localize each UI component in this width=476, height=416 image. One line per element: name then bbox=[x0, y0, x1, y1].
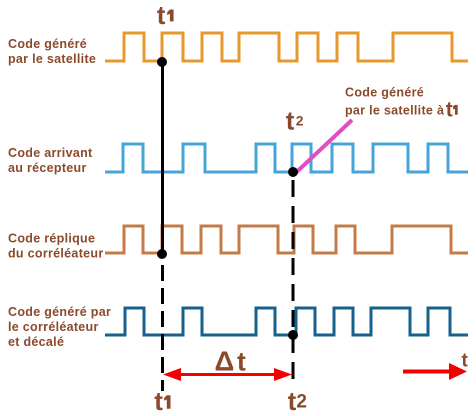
node: dot t1 on W3 bbox=[157, 249, 167, 259]
svg-text:par le satellite à: par le satellite à bbox=[345, 104, 444, 118]
svg-text:le corréléateur: le corréléateur bbox=[8, 320, 99, 334]
svg-text:t: t bbox=[154, 386, 163, 416]
label: t1 top bbox=[157, 0, 174, 30]
svg-text:Code généré: Code généré bbox=[345, 85, 424, 99]
svg-text:au récepteur: au récepteur bbox=[8, 161, 87, 175]
svg-text:Code réplique: Code réplique bbox=[8, 231, 95, 245]
svg-text:t: t bbox=[462, 350, 469, 371]
svg-text:t: t bbox=[237, 346, 246, 376]
time axis red arrow bbox=[403, 363, 467, 380]
svg-text:Code généré: Code généré bbox=[8, 37, 87, 51]
svg-text:t: t bbox=[288, 386, 297, 416]
svg-text:t: t bbox=[157, 0, 166, 30]
wire: t2 vertical dashed line bbox=[292, 172, 295, 382]
label: Code genere par le correleateur et decale bbox=[8, 305, 111, 349]
wire: t1 vertical solid line bbox=[161, 62, 164, 254]
annotation: Code genere par le satellite a t1 bbox=[345, 85, 458, 121]
label: Code replique du correleateur bbox=[8, 231, 104, 260]
label: delta t bbox=[215, 345, 247, 376]
label: Code arrivant au recepteur bbox=[8, 146, 93, 175]
label: t1 bottom bbox=[154, 386, 170, 416]
pink annotation line to t2 point bbox=[295, 120, 352, 174]
waveform W1: code genere par le satellite (orange) bbox=[105, 33, 468, 61]
svg-text:t: t bbox=[286, 106, 295, 136]
label: Code genere par le satellite bbox=[8, 37, 96, 66]
label: t2 mid bbox=[286, 106, 304, 136]
svg-text:Code arrivant: Code arrivant bbox=[8, 146, 93, 160]
waveform W3: code replique du correleateur (tan) bbox=[105, 226, 468, 253]
wire: t1 vertical dashed line bbox=[161, 254, 164, 391]
label: t2 bottom bbox=[288, 386, 307, 416]
node: dot t2 on W2 bbox=[288, 167, 298, 177]
svg-text:par le satellite: par le satellite bbox=[8, 52, 96, 66]
svg-text:et décalé: et décalé bbox=[8, 335, 64, 349]
svg-text:2: 2 bbox=[296, 113, 304, 129]
svg-text:Code généré par: Code généré par bbox=[8, 305, 111, 319]
delta-t red double arrow bbox=[163, 368, 292, 381]
svg-text:2: 2 bbox=[296, 392, 307, 413]
waveform W4: code genere par le correleateur et decale (dark blue) bbox=[105, 308, 468, 335]
svg-text:Δ: Δ bbox=[215, 345, 235, 376]
node: dot t2 on W4 bbox=[288, 330, 298, 340]
waveform W2: code arrivant au recepteur (light blue) bbox=[105, 144, 468, 172]
node: dot t1 on W1 bbox=[157, 57, 167, 67]
svg-text:du corréléateur: du corréléateur bbox=[8, 246, 104, 260]
svg-text:t: t bbox=[446, 99, 453, 122]
